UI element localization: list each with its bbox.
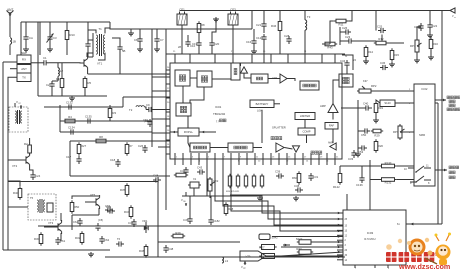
block LIMITER xyxy=(295,113,315,120)
wire ic int w4 xyxy=(244,74,251,79)
wire C34 down xyxy=(346,68,348,74)
pin number scatter-0 xyxy=(167,67,170,69)
wire xtal bus xyxy=(185,192,187,196)
wire vert x438 xyxy=(437,103,439,224)
arrow into IC03 p7 xyxy=(338,251,341,254)
capacitor C3 trimmer xyxy=(47,34,57,42)
resistor R50 xyxy=(70,200,79,213)
wire antenna feed lower xyxy=(9,45,11,56)
svg-text:R15: R15 xyxy=(394,53,400,57)
pin number IC01-5 xyxy=(208,157,210,159)
pin number scatter-13 xyxy=(199,161,201,163)
pin IC01-ib14 xyxy=(286,153,288,159)
svg-text:( ): ( ) xyxy=(216,119,219,123)
wire left pin run4 xyxy=(152,132,166,134)
capacitor C132 xyxy=(66,101,74,110)
svg-text:L3: L3 xyxy=(225,259,229,263)
label AMP-big xyxy=(320,104,326,108)
pin IC01-T5 xyxy=(263,54,265,63)
pin number scatter-9 xyxy=(258,161,261,163)
pin IC01-ib20 xyxy=(334,153,336,159)
wire RXPLL right xyxy=(199,131,216,134)
svg-text:R132: R132 xyxy=(385,181,392,185)
wire r132 bus xyxy=(370,179,382,181)
diode VD1 xyxy=(142,219,148,230)
wire CA drop xyxy=(25,22,27,34)
wire top bus main xyxy=(180,10,451,12)
wire r130 right xyxy=(397,165,414,167)
wire stair w4 xyxy=(231,165,343,231)
wire C8 gnd xyxy=(139,44,141,47)
wire ant box lead xyxy=(10,68,17,70)
pin IC01-ib8 xyxy=(238,153,240,159)
wire r19 to s120 xyxy=(376,100,380,104)
svg-text:C17: C17 xyxy=(66,155,72,159)
capacitor C23 xyxy=(345,35,354,44)
ground C136b xyxy=(0,0,1,1)
svg-text:VD1: VD1 xyxy=(142,219,148,223)
pin number scatter-6 xyxy=(167,144,170,146)
svg-text:R43: R43 xyxy=(327,46,333,50)
svg-text:C25: C25 xyxy=(377,25,383,29)
resistor R30 xyxy=(34,232,43,245)
arrow into IC03 p4 xyxy=(338,235,341,238)
label T6 xyxy=(117,237,121,241)
crystal filter CF1 xyxy=(177,8,187,27)
pin IC01-T1 xyxy=(189,54,191,63)
pin IC01-ib5 xyxy=(214,153,216,159)
label out2-l3 xyxy=(449,176,455,179)
wire VT2 collector up xyxy=(29,138,31,143)
wire C7 top xyxy=(156,29,158,36)
capacitor C10 xyxy=(185,39,195,48)
amp mid-tri xyxy=(293,146,300,152)
svg-text:VT2: VT2 xyxy=(12,164,18,168)
wire R46 bot xyxy=(279,31,281,55)
wire RP1 bot xyxy=(416,54,418,58)
wire R16 top xyxy=(430,36,432,40)
pin number scatter-16 xyxy=(409,89,411,91)
block COMP xyxy=(298,128,315,135)
wire antenna feed xyxy=(9,17,11,37)
pin number scatter-15 xyxy=(388,268,390,270)
pin 8 xyxy=(428,182,430,185)
resistor R2 xyxy=(24,142,31,155)
svg-text:R8: R8 xyxy=(201,23,205,27)
pin IC01-T3 xyxy=(232,54,234,63)
wire s042 out xyxy=(272,236,343,238)
svg-text:C21: C21 xyxy=(256,23,262,27)
wire vert x430 xyxy=(429,11,431,23)
wire VT1 emitter out xyxy=(87,70,89,74)
IC U2 outline xyxy=(414,84,435,186)
pin IC03-36 xyxy=(337,255,348,257)
switch S1b xyxy=(410,176,431,183)
pin IC01-b16 xyxy=(302,159,304,165)
wire R10 bottom xyxy=(66,40,68,56)
wire ic01 tr corner xyxy=(342,55,353,70)
svg-text:C36: C36 xyxy=(380,61,386,65)
wire ic int w13 xyxy=(261,110,263,143)
svg-text:C45: C45 xyxy=(128,221,134,225)
wire C26-C23 rail xyxy=(339,27,341,45)
wire R5 gnd xyxy=(84,88,86,97)
ground R19 xyxy=(373,118,379,123)
svg-text:VT1: VT1 xyxy=(97,62,103,66)
wire mid band bus3 xyxy=(60,131,152,133)
resistor A31b xyxy=(259,254,276,259)
diode VD1 sym2 xyxy=(145,222,147,233)
wire bus B xyxy=(112,28,252,30)
resistor R11 xyxy=(334,19,348,26)
wire ic02 out2 xyxy=(435,169,447,171)
wire ic int w9 xyxy=(187,116,189,128)
svg-text:C9: C9 xyxy=(146,103,150,107)
wire rail join rx xyxy=(3,61,17,63)
capacitor C36c xyxy=(106,205,115,214)
resistor R3 xyxy=(108,106,116,119)
label SPLATTER xyxy=(272,126,286,130)
wire rp2 to ic02 xyxy=(373,90,414,92)
capacitor C50 xyxy=(361,128,370,137)
wire C3t low xyxy=(49,42,51,47)
wire mid right v1 xyxy=(369,160,371,186)
wire ic int w18 xyxy=(332,129,334,143)
potentiometer VX2 xyxy=(208,177,219,193)
wire c64 bus xyxy=(72,214,99,216)
wire R3 link xyxy=(109,105,111,109)
wire R1 gnd xyxy=(61,88,63,97)
svg-text:T3: T3 xyxy=(307,15,311,19)
svg-text:IC01: IC01 xyxy=(215,105,222,109)
wire R11 stub xyxy=(348,11,352,22)
wire txc bus xyxy=(6,249,110,251)
pin IC01-ib10 xyxy=(254,153,256,159)
pin IC01-ib13 xyxy=(278,153,280,159)
pin number IC01-7 xyxy=(224,157,226,159)
pin IC01-L0 xyxy=(166,69,170,71)
wire T3 bot xyxy=(304,30,306,54)
resistor R14 xyxy=(364,45,373,58)
pin IC01-b20 xyxy=(334,159,336,165)
svg-text:R19: R19 xyxy=(378,106,384,110)
label (shang) xyxy=(216,119,219,123)
label amp2-cjk xyxy=(311,151,322,154)
label MHP xyxy=(21,51,27,55)
svg-text:RAF: RAF xyxy=(329,124,335,128)
pin IC01-b15 xyxy=(294,159,296,165)
label AMP-small xyxy=(328,142,334,145)
pin number scatter-4 xyxy=(167,116,170,118)
svg-text:S022: S022 xyxy=(296,237,303,241)
capacitor C66 xyxy=(105,204,113,213)
pin IC01-L8 xyxy=(166,132,170,134)
wire C3t drop xyxy=(49,22,51,34)
label R-5 MCU xyxy=(364,237,375,241)
pin IC01-ib17 xyxy=(310,153,312,159)
svg-text:R34: R34 xyxy=(124,210,130,214)
wire busB-topbus link xyxy=(251,11,253,30)
ground belowic xyxy=(257,196,263,201)
capacitor C24 xyxy=(30,172,40,180)
pin number scatter-14 xyxy=(355,268,357,270)
resistor R29 xyxy=(171,231,185,238)
pin IC01-L3 xyxy=(166,90,170,92)
pin IC01-ib16 xyxy=(302,153,304,159)
pin number IC01-17 xyxy=(304,157,307,159)
svg-text:R3: R3 xyxy=(113,111,117,115)
wire R8-C19 xyxy=(198,33,200,41)
pin IC01-b8 xyxy=(238,159,240,165)
pin IC03-14 xyxy=(337,260,348,262)
wire vt5 emit xyxy=(98,208,100,215)
capacitor C18 xyxy=(110,158,121,167)
wire ic int w15 xyxy=(304,120,306,129)
capacitor C48 xyxy=(163,245,173,253)
arrow mid-wire y245 xyxy=(283,244,290,247)
label out1-l1 xyxy=(447,96,460,99)
wire vt5 base xyxy=(85,201,93,203)
pin IC01-ib18 xyxy=(318,153,320,159)
pin number IC01-19 xyxy=(320,157,323,159)
resistor R25b xyxy=(174,173,188,177)
resistor R127 xyxy=(252,174,255,188)
wire rx rail up xyxy=(20,22,22,55)
label (C5) xyxy=(98,218,103,222)
svg-text:R27: R27 xyxy=(81,144,87,148)
label TB31202 xyxy=(213,112,226,116)
capacitor C38a xyxy=(138,144,148,153)
wire bus1 step xyxy=(122,97,124,107)
svg-text:R26 R25 R21: R26 R25 R21 xyxy=(226,191,240,193)
wire long left wire xyxy=(38,225,343,227)
resistor R21 xyxy=(244,174,247,188)
resistor R33 xyxy=(296,247,313,254)
pin IC01-L10 xyxy=(166,146,170,148)
ground C3 xyxy=(47,47,53,52)
svg-text:R33: R33 xyxy=(296,247,302,251)
pin number scatter-7 xyxy=(345,56,348,58)
pin number IC01-1 xyxy=(176,157,178,159)
svg-text:VT9: VT9 xyxy=(246,255,251,259)
capacitor C19 xyxy=(192,40,202,48)
svg-text:R07: R07 xyxy=(259,246,265,250)
svg-text:C31: C31 xyxy=(313,175,319,179)
label out1-l2 xyxy=(449,100,455,103)
power arrow Vcc-1 xyxy=(18,103,22,109)
capacitor C62 xyxy=(99,236,109,244)
svg-text:LIMITER: LIMITER xyxy=(300,114,310,118)
crystal filter CF3 xyxy=(228,8,238,27)
ground C16 xyxy=(251,49,257,54)
pin IC01-ib7 xyxy=(230,153,232,159)
pin IC01-ib3 xyxy=(198,153,200,159)
wire row y43 bus2 xyxy=(386,42,404,44)
wire ic int w19 xyxy=(285,148,293,150)
pin number scatter-18 xyxy=(409,132,411,134)
inductor T2 xyxy=(129,106,144,112)
amp splatter-tri xyxy=(276,143,284,152)
resistor R22 xyxy=(296,237,313,244)
svg-text:T2: T2 xyxy=(129,108,133,112)
svg-text:C134: C134 xyxy=(68,126,75,130)
wire rail x166 xyxy=(165,29,167,210)
svg-text:C20: C20 xyxy=(214,42,220,46)
svg-text:C1: C1 xyxy=(43,56,47,60)
svg-text:C62: C62 xyxy=(104,238,110,242)
pin 61 xyxy=(397,223,400,226)
wire ic int w3 xyxy=(240,63,242,66)
wire C26 left xyxy=(340,31,343,33)
wire left pin run5 xyxy=(158,146,166,148)
inductor T3 xyxy=(305,15,311,30)
wire a31 out xyxy=(281,252,343,256)
resistor R29b xyxy=(371,129,383,137)
label K37 xyxy=(363,79,368,83)
ground belowic2 xyxy=(293,196,299,201)
wire T1 right bot xyxy=(98,53,105,60)
svg-text:R35: R35 xyxy=(120,188,126,192)
potentiometer RP3 xyxy=(393,124,405,140)
wire ic int w6 xyxy=(287,79,295,82)
capacitor C17b xyxy=(66,155,82,164)
block IF xyxy=(231,63,240,80)
power arrow Vcc-tr xyxy=(450,8,456,19)
svg-text:R14: R14 xyxy=(368,50,374,54)
svg-text:R30: R30 xyxy=(34,237,40,241)
arrow pin61 xyxy=(410,223,413,226)
wire ic int w17 xyxy=(332,113,334,120)
block second-osc xyxy=(190,143,210,152)
block BATTERY xyxy=(250,100,274,108)
svg-text:C45: C45 xyxy=(183,218,189,222)
wire R11 left link xyxy=(330,21,334,44)
wire r122 stub xyxy=(339,166,341,174)
wire RP1 up xyxy=(417,27,421,38)
svg-text:R20: R20 xyxy=(378,144,384,148)
ground main-lf xyxy=(69,96,75,101)
pin IC01-b17 xyxy=(310,159,312,165)
capacitor C25 xyxy=(377,25,386,34)
wire T1 top tap xyxy=(88,30,96,33)
wire vt3 up xyxy=(60,213,62,221)
wire C2 drop xyxy=(51,80,53,82)
wire C25-R12 link xyxy=(381,35,383,42)
wire C25 feed xyxy=(375,11,377,31)
wire x1 drop xyxy=(193,188,195,196)
wire ic03 pin61 xyxy=(406,223,442,225)
label IC03 xyxy=(367,231,374,235)
ground C8 xyxy=(137,47,143,52)
watermark reg circle xyxy=(435,252,438,255)
watermark dzsc url xyxy=(398,262,450,270)
wire vt5 chain xyxy=(60,233,62,241)
pin number scatter-2 xyxy=(167,88,170,90)
pin number scatter-20 xyxy=(231,51,234,53)
svg-text:C182: C182 xyxy=(213,219,220,223)
pin IC01-L9 xyxy=(166,139,170,141)
wire busB gnd stub xyxy=(130,29,132,31)
capacitor C22 xyxy=(427,22,437,30)
wire c182 up xyxy=(210,196,212,217)
svg-text:TX: TX xyxy=(22,75,26,79)
wire C8 top xyxy=(139,29,141,36)
amp LOW-tri xyxy=(272,74,287,83)
block noise-filter xyxy=(300,81,319,90)
wire C2 gnd xyxy=(51,89,53,96)
capacitor CT6 xyxy=(116,241,124,246)
svg-text:C136: C136 xyxy=(356,183,363,187)
wire C21 top xyxy=(263,11,265,22)
pin IC01-b2 xyxy=(190,159,192,165)
svg-text:COMP: COMP xyxy=(302,129,310,133)
wire R46 top xyxy=(279,11,281,22)
wire below ic bus xyxy=(230,194,320,196)
pin IC01-b3 xyxy=(198,159,200,165)
svg-text:C18: C18 xyxy=(110,158,116,162)
pin number scatter-21 xyxy=(263,51,266,53)
transformer T1 xyxy=(88,27,105,57)
ground topmid xyxy=(213,17,219,22)
wire rail x152 low xyxy=(151,105,153,147)
svg-text:C28: C28 xyxy=(284,34,290,38)
wire VT1 collector xyxy=(87,53,93,57)
wire rail x152 xyxy=(151,29,153,105)
block discriminator xyxy=(251,74,268,83)
wire amp up out xyxy=(333,80,339,104)
wire CF1 bottom drop xyxy=(181,27,183,55)
pin IC01-ib12 xyxy=(270,153,272,159)
amp AMP-big-tri xyxy=(328,104,338,113)
wire C10 top xyxy=(187,35,189,39)
wire mid right v2 xyxy=(369,186,371,210)
capacitor C39 xyxy=(275,170,284,179)
svg-text:R-5 MCU: R-5 MCU xyxy=(364,237,375,241)
label LOW xyxy=(257,109,263,113)
wire tx rail joint xyxy=(8,77,17,82)
label out2-l1 xyxy=(449,166,459,169)
wire stair w2 xyxy=(215,165,343,219)
svg-text:C38: C38 xyxy=(294,184,300,188)
wire c45b up xyxy=(189,196,191,216)
wire ic03 bottom stub2 xyxy=(354,265,356,268)
trimmer arrow C3 xyxy=(47,34,54,43)
comparator VT9 xyxy=(240,251,266,261)
label out1-l4 xyxy=(447,108,460,111)
svg-text:R60: R60 xyxy=(292,176,298,180)
block S120 xyxy=(380,100,395,107)
pin number scatter-17 xyxy=(409,103,411,105)
pin IC01-ib9 xyxy=(246,153,248,159)
svg-text:5B: 5B xyxy=(122,49,126,53)
transistor VT3 xyxy=(48,220,62,234)
pin IC01-T6 xyxy=(270,54,272,63)
svg-text:R8: R8 xyxy=(99,135,103,139)
ground CA xyxy=(23,47,29,52)
wire R43 left xyxy=(322,43,330,45)
pin IC01-ib4 xyxy=(206,153,208,159)
svg-text:cc: cc xyxy=(454,17,456,19)
svg-text:VX2: VX2 xyxy=(213,179,219,183)
watermark mascot xyxy=(386,233,451,266)
ground R14 xyxy=(363,59,369,64)
arrow out2 xyxy=(444,169,447,172)
wire T4 top lead xyxy=(14,103,16,107)
wire stair w3 xyxy=(223,165,343,225)
pin number IC01-3 xyxy=(192,157,194,159)
ground txchain xyxy=(88,252,94,257)
svg-text:C53: C53 xyxy=(358,150,364,154)
